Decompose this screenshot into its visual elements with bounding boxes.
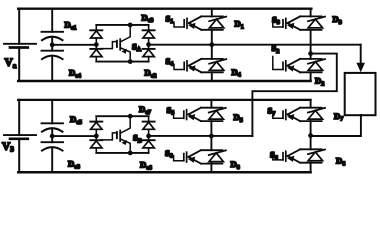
transistor SB bbox=[101, 116, 130, 153]
wire cap midpoint to clamp cell lower bbox=[52, 135, 96, 137]
wire top rail lower bridge bbox=[18, 99, 310, 101]
node SB collector junction bbox=[128, 114, 133, 119]
battery Va bbox=[4, 44, 36, 48]
transistor S6 with diode D6 bbox=[273, 149, 325, 162]
capacitor C2 upper bbox=[42, 51, 64, 59]
wire bottom rail lower bridge bbox=[18, 171, 310, 174]
capacitor C4 lower bbox=[42, 142, 64, 150]
wire S6 collector stub bbox=[310, 136, 312, 150]
wire S6 emitter stub bbox=[310, 163, 312, 173]
wire left vertical lower bridge bbox=[18, 100, 20, 172]
transistor S4 with diode D4 bbox=[174, 59, 226, 72]
wire clamp cell bottom lower bbox=[96, 152, 148, 154]
wire load bottom to S7 S6 midpoint bbox=[311, 115, 361, 136]
node clamp right midpoint upper bbox=[146, 42, 151, 47]
wire S1 collector stub bbox=[211, 9, 213, 17]
diode Dc1 bbox=[90, 30, 102, 38]
wire clamp cell right column upper bbox=[148, 25, 150, 62]
diode Dc3 bbox=[143, 30, 155, 38]
wire clamp cell bottom upper bbox=[96, 61, 148, 63]
capacitor C3 lower bbox=[42, 123, 64, 131]
wire clamp cell right column lower bbox=[148, 116, 150, 153]
node capacitor midpoint lower bbox=[50, 134, 55, 139]
wire S4 collector stub bbox=[211, 45, 213, 59]
arrow into load bbox=[356, 63, 365, 73]
wire phase A lower bbox=[149, 135, 253, 137]
node S5 S8 midpoint bbox=[209, 134, 214, 139]
wire S8 collector stub bbox=[210, 136, 212, 150]
diode Dc4 bbox=[90, 49, 102, 57]
transistor SA bbox=[101, 25, 130, 62]
diode Dc7 bbox=[143, 122, 155, 130]
diode Dc6 bbox=[143, 140, 155, 148]
wire capacitor branch lower bbox=[51, 100, 53, 172]
wire S2 collector stub bbox=[310, 54, 312, 59]
node S3 S2 midpoint bbox=[308, 51, 313, 56]
wire top rail (upper bridge DC+) bbox=[18, 8, 311, 10]
wire S2 emitter stub bbox=[310, 72, 312, 81]
wire clamp cell left column lower bbox=[95, 116, 97, 153]
wire phase A upper bbox=[149, 44, 361, 46]
wire capacitor branch upper bbox=[51, 9, 53, 81]
wire S5 collector stub bbox=[210, 100, 212, 108]
wire S1 emitter stub bbox=[211, 30, 213, 45]
diode Dc8 bbox=[90, 140, 102, 148]
wire S7 collector stub bbox=[310, 100, 312, 108]
transistor S5 with diode D5 bbox=[174, 108, 226, 121]
load box bbox=[345, 73, 376, 115]
wire left vertical upper bridge bbox=[18, 9, 20, 81]
wire clamp cell top lower bbox=[96, 115, 148, 117]
wire clamp cell top upper bbox=[96, 24, 148, 26]
node SB emitter junction bbox=[128, 151, 133, 156]
diode Dc2 bbox=[143, 49, 155, 57]
battery V3 bbox=[4, 135, 36, 139]
node clamp left midpoint upper bbox=[94, 42, 99, 47]
wire S4 emitter stub bbox=[211, 72, 213, 81]
node S7 S6 midpoint bbox=[308, 133, 313, 138]
wire bottom rail (upper bridge DC-) bbox=[18, 80, 310, 82]
transistor S3 with diode D3 bbox=[273, 16, 325, 29]
wire S7 emitter stub bbox=[310, 121, 312, 136]
transistor S2 with diode D2 bbox=[273, 59, 325, 72]
transistor S1 with diode D1 bbox=[174, 16, 226, 29]
wire S8 emitter stub bbox=[210, 164, 212, 173]
capacitor C1 upper bbox=[42, 32, 64, 40]
transistor S8 with diode D8 bbox=[174, 150, 226, 163]
node clamp right midpoint lower bbox=[146, 134, 151, 139]
wire load lead from phase A bbox=[360, 45, 362, 64]
wire cap midpoint to clamp cell upper bbox=[52, 44, 96, 46]
wire clamp cell left column upper bbox=[95, 25, 97, 62]
wire S2 gate lead extension bbox=[272, 57, 274, 65]
wire phase B link upper to lower bbox=[252, 54, 336, 137]
wire S5 emitter stub bbox=[210, 121, 212, 136]
node S1 S4 midpoint bbox=[209, 42, 214, 47]
wire S3 collector stub bbox=[310, 9, 312, 17]
node capacitor midpoint upper bbox=[50, 42, 55, 47]
transistor S7 with diode D7 bbox=[273, 108, 325, 121]
wire S3 emitter stub bbox=[310, 30, 312, 54]
node SA emitter junction bbox=[128, 59, 133, 64]
diode Dc5 bbox=[90, 122, 102, 130]
node clamp left midpoint lower bbox=[94, 134, 99, 139]
node SA collector junction bbox=[128, 23, 133, 28]
